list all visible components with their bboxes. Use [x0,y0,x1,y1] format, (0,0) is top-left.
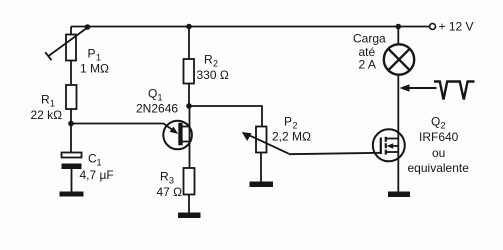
wire R2 to node D [188,84,190,107]
wire top rail to R2 [188,27,190,60]
annotation arrow to drain wire [400,84,437,92]
svg-text:equivalente: equivalente [408,161,470,175]
svg-text:2 A: 2 A [359,58,376,72]
wire node D down through Q1 base to R3 [189,106,191,168]
label C1 [88,152,102,168]
ground (R3) [178,213,201,219]
wire node D to P2 [189,106,262,127]
svg-text:IRF640: IRF640 [419,130,459,144]
svg-text:P: P [284,114,292,128]
value 2,2 MΩ [272,130,311,144]
node D: R2/Q1-B2/P2 junction [186,103,192,109]
potentiometer P2 [242,127,289,154]
wire C1 to ground [71,169,73,192]
label P1 [88,47,102,63]
value 330 Ω [197,68,229,82]
label ou [432,146,445,160]
wire R3 to ground [188,195,190,213]
label Q2 [431,114,446,130]
svg-text:3: 3 [169,176,174,186]
wire lamp to Q2 drain and source to ground [397,75,399,192]
value IRF640 [419,130,459,144]
svg-text:ou: ou [432,146,445,160]
svg-text:P: P [88,47,96,61]
svg-text:4,7 µF: 4,7 µF [80,168,114,182]
svg-text:Carga: Carga [353,32,386,46]
svg-text:R: R [204,53,213,67]
transistor Q2 (MOSFET IRF640) [373,129,405,161]
resistor R3 [184,168,195,195]
svg-text:22 kΩ: 22 kΩ [31,108,63,122]
svg-text:R: R [160,170,169,184]
label equivalente [408,161,470,175]
wire P2 wiper to Q2 gate [289,153,381,154]
label P2 [284,114,298,130]
label Q1 [148,87,163,103]
lamp load (Carga) [384,44,414,74]
wire R1 to C1 [70,109,72,153]
wire lamp top lead [397,27,399,45]
ground (P2) [250,182,274,188]
wire P2 to ground [260,153,262,182]
ground (C1) [60,192,84,197]
label R1 [41,93,55,109]
value 4,7 µF [80,168,114,182]
label R3 [160,170,174,186]
wire P1 to R1 [70,61,72,86]
value 47 Ω [157,185,183,199]
wire P1 top riser [70,27,72,35]
svg-text:Q: Q [148,87,157,101]
svg-text:330 Ω: 330 Ω [197,68,229,82]
potentiometer P1 [45,28,87,61]
resistor R2 [184,59,195,84]
svg-text:2N2646: 2N2646 [136,102,178,116]
label R2 [204,53,218,69]
node B: R1/C1/emitter junction [68,121,74,127]
transistor Q1 (UJT 2N2646) [163,121,192,150]
svg-text:+ 12 V: + 12 V [439,20,474,34]
terminal +12V [430,24,436,30]
value 2N2646 [136,102,178,116]
node E: top rail to lamp [396,24,402,30]
wire top rail +12V [71,26,430,28]
node A: P1 wiper junction [85,24,91,30]
svg-text:2: 2 [213,59,218,69]
label + 12 V [439,20,474,34]
resistor R1 [66,85,77,109]
node C: top rail to R2 [186,24,192,30]
svg-text:2,2 MΩ: 2,2 MΩ [272,130,311,144]
label Carga até 2 A [353,32,386,72]
svg-text:R: R [41,93,50,107]
value 22 kΩ [31,108,63,122]
capacitor C1 [62,153,82,170]
svg-text:47 Ω: 47 Ω [157,185,183,199]
ground (Q2) [388,192,410,198]
svg-text:2: 2 [441,120,446,130]
svg-text:1: 1 [97,158,102,168]
svg-text:1: 1 [50,99,55,109]
waveform symbol [434,82,475,100]
svg-text:Q: Q [431,114,440,128]
value 1 MΩ [80,62,109,76]
svg-text:1 MΩ: 1 MΩ [80,62,109,76]
wire emitter to node B [71,123,164,125]
